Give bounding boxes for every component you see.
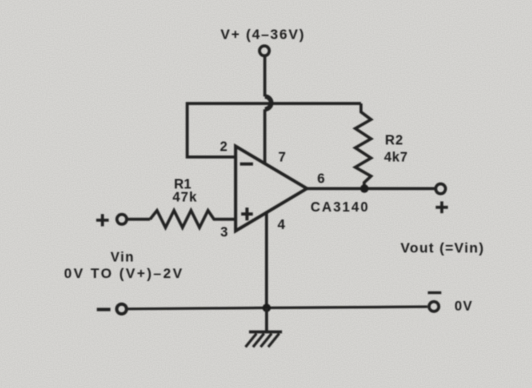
terminal Vin: [117, 214, 127, 224]
op-amp non-inverting input plus mark: [241, 208, 253, 221]
svg-text:CA3140: CA3140: [311, 200, 370, 215]
wire input to R1: [127, 218, 150, 221]
terminal V+: [260, 46, 270, 56]
op-amp U1 triangle: [236, 146, 307, 231]
resistor R1: [150, 211, 236, 228]
terminal 0V right: [429, 302, 439, 312]
wire output pin6: [307, 187, 436, 190]
wire pin4 down to 0V rail: [265, 212, 268, 308]
svg-text:0V: 0V: [455, 299, 474, 314]
svg-text:0V TO (V+)–2V: 0V TO (V+)–2V: [64, 265, 184, 281]
wire V+ vertical with hop over feedback wire: [263, 56, 266, 97]
svg-text:7: 7: [278, 150, 286, 165]
polarity minus above 0V right terminal: [428, 291, 442, 294]
svg-text:4: 4: [278, 217, 286, 232]
terminal Vout: [436, 184, 446, 194]
wire 0V rail: [127, 307, 427, 309]
svg-text:Vout (=Vin): Vout (=Vin): [401, 240, 485, 256]
ground: [246, 308, 283, 347]
svg-text:47k: 47k: [173, 190, 198, 205]
terminal 0V left: [117, 304, 127, 314]
resistor R2: [355, 104, 371, 189]
polarity minus at 0V left terminal: [97, 308, 111, 311]
svg-text:Vin: Vin: [111, 250, 135, 265]
svg-text:R2: R2: [385, 133, 403, 148]
svg-text:3: 3: [220, 225, 228, 240]
node output junction dot: [360, 184, 368, 192]
op-amp inverting input minus mark: [240, 162, 253, 165]
svg-text:2: 2: [220, 139, 228, 154]
polarity plus at Vout terminal: [436, 201, 448, 213]
svg-text:6: 6: [317, 171, 325, 186]
wire feedback: pin2 left, up, across to R2 top: [187, 104, 361, 158]
svg-text:4k7: 4k7: [384, 150, 408, 165]
svg-text:V+ (4–36V): V+ (4–36V): [221, 26, 306, 42]
node ground junction dot: [262, 304, 270, 312]
polarity plus at Vin terminal: [96, 214, 109, 226]
